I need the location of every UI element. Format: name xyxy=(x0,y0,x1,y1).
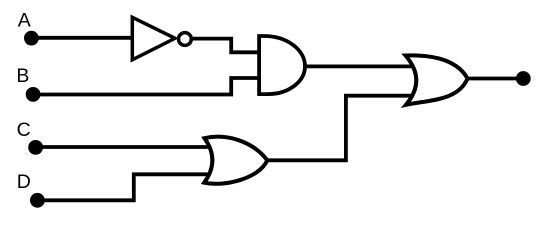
wire C: input C to OR1 top input xyxy=(36,145,214,149)
node D input terminal xyxy=(30,193,45,208)
wire A: input A to NOT gate xyxy=(31,36,140,40)
svg-text:A: A xyxy=(18,9,31,31)
wire D: input D to OR1 bottom input (step up) xyxy=(37,174,214,200)
svg-text:B: B xyxy=(16,65,29,87)
AND gate U2 xyxy=(259,36,305,94)
OR gate U3 (C,D inputs) xyxy=(204,137,267,184)
inverter U1 bubble xyxy=(179,33,192,46)
wire AND output to OR2 top input xyxy=(303,65,418,69)
wire NOT output to AND top input (step down) xyxy=(191,39,264,53)
node C input terminal xyxy=(28,140,43,155)
OR gate U4 (output stage) xyxy=(406,55,468,104)
node A input terminal xyxy=(24,31,39,46)
wire OR2 output to output node xyxy=(466,77,519,81)
wire OR1 output to OR2 bottom input (step up) xyxy=(265,96,416,161)
node B input terminal xyxy=(26,87,41,102)
svg-text:C: C xyxy=(17,119,31,141)
inverter U1 triangle xyxy=(132,17,175,60)
wire B: input B to AND bottom input (step up) xyxy=(33,78,264,95)
svg-text:D: D xyxy=(17,171,31,193)
node output terminal xyxy=(516,71,531,86)
